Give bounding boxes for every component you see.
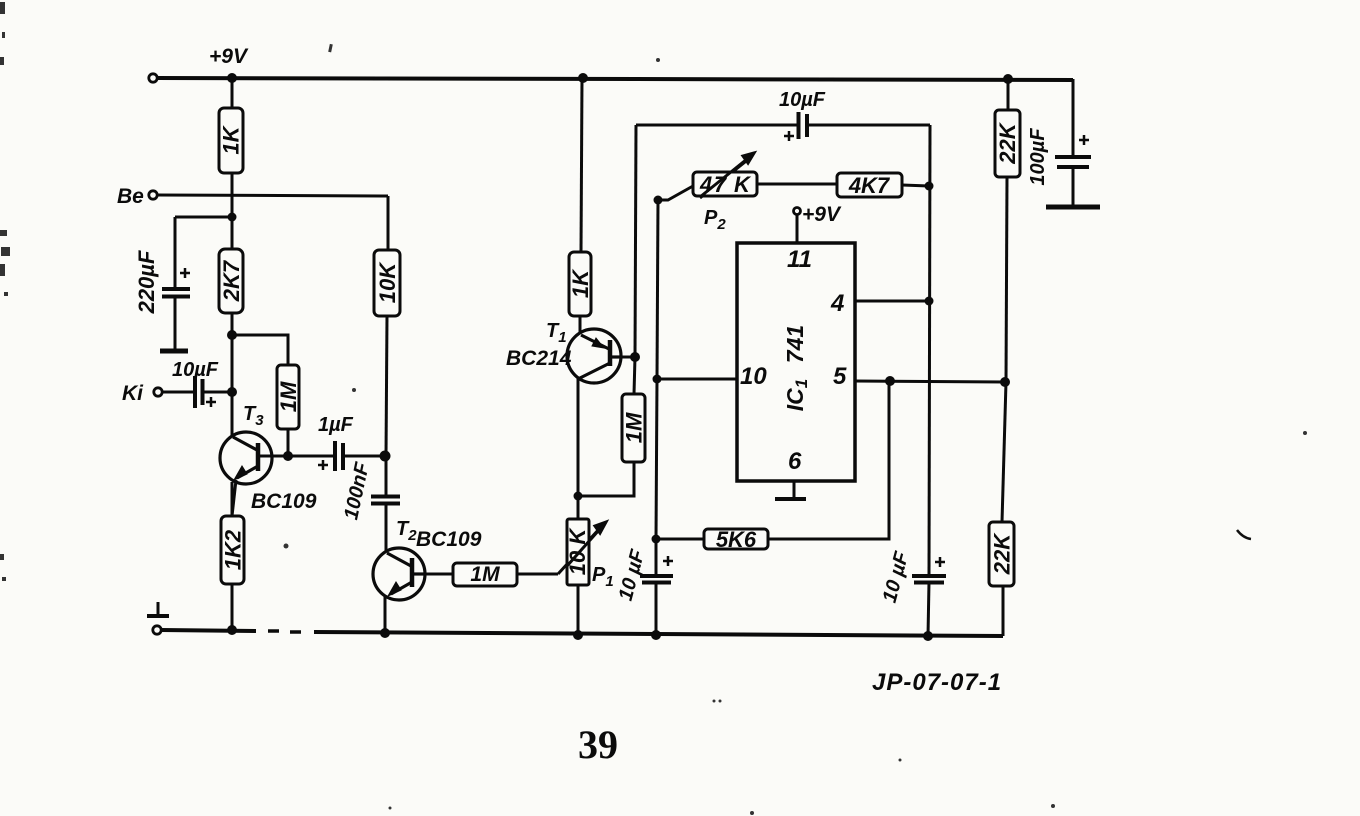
svg-text:Be: Be [117,185,144,208]
svg-text:1M: 1M [470,563,500,586]
svg-text:1K2: 1K2 [221,529,246,570]
svg-text:5K6: 5K6 [716,527,757,552]
svg-text:10: 10 [740,363,767,390]
svg-text:JP-07-07-1: JP-07-07-1 [872,669,1002,696]
svg-text:BC109: BC109 [416,528,482,551]
svg-text:Ki: Ki [122,382,144,405]
svg-text:10µF: 10µF [779,89,826,111]
svg-text:BC214: BC214 [506,347,572,370]
svg-text:4: 4 [830,290,844,317]
svg-text:+9V: +9V [209,45,249,68]
svg-text:39: 39 [578,722,618,767]
svg-text:7: 7 [714,172,728,197]
svg-text:BC109: BC109 [251,490,317,513]
svg-text:10 K: 10 K [565,527,590,576]
svg-text:1K: 1K [219,124,244,154]
svg-text:4: 4 [699,172,712,197]
svg-text:1M: 1M [622,412,647,443]
svg-text:1K: 1K [568,268,593,298]
svg-text:22K: 22K [995,121,1020,164]
svg-text:K: K [734,172,752,197]
svg-text:10µF: 10µF [172,359,219,381]
svg-text:1µF: 1µF [318,414,354,436]
svg-text:10K: 10K [375,261,400,303]
svg-text:11: 11 [787,246,812,273]
svg-text:5: 5 [833,363,847,390]
svg-text:741: 741 [782,325,808,363]
svg-text:1M: 1M [276,381,301,412]
svg-text:220µF: 220µF [134,250,159,314]
svg-text:2K7: 2K7 [219,259,244,302]
svg-text:100µF: 100µF [1027,128,1049,186]
svg-text:4K7: 4K7 [848,173,891,198]
svg-text:22K: 22K [990,532,1015,575]
svg-text:+9V: +9V [802,203,842,226]
svg-text:6: 6 [788,448,802,475]
